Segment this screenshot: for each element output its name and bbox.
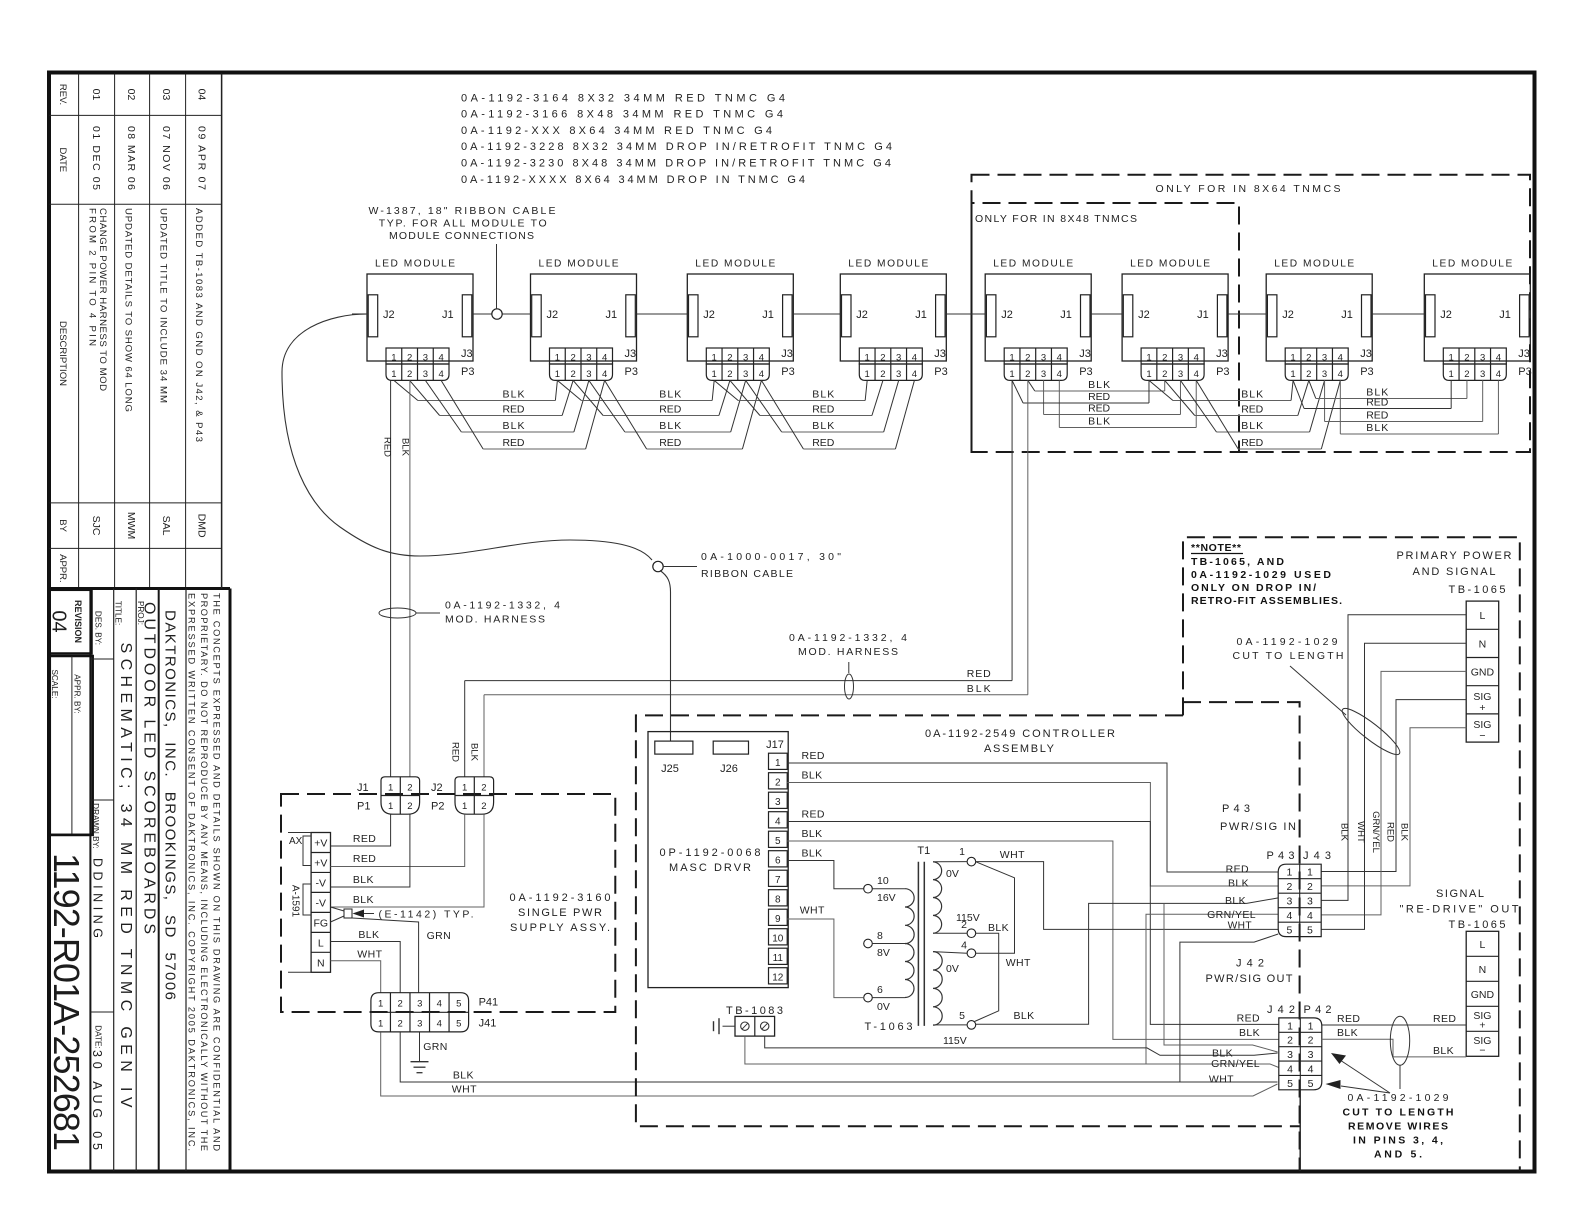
svg-text:WHT: WHT	[452, 1084, 477, 1096]
wire bus span M1-M2	[394, 380, 418, 400]
module M2 connector J1	[626, 295, 636, 337]
svg-text:RED: RED	[1241, 404, 1263, 416]
svg-text:J42: J42	[1236, 958, 1264, 970]
svg-text:P2: P2	[431, 801, 444, 813]
wire bus span M2-M3	[557, 380, 581, 400]
svg-text:SUPPLY ASSY.: SUPPLY ASSY.	[510, 922, 610, 934]
svg-text:LED MODULE: LED MODULE	[848, 259, 928, 270]
svg-text:4: 4	[1194, 353, 1199, 364]
svg-text:3: 3	[417, 999, 422, 1010]
svg-text:+V: +V	[314, 858, 327, 870]
svg-text:3: 3	[1322, 353, 1327, 364]
wire J17.4 RED to J42.1	[787, 821, 1279, 1024]
svg-text:J3: J3	[1216, 348, 1228, 360]
module M4 connector J3/P3 header	[859, 348, 922, 364]
module M1 J2 stub wire	[352, 313, 367, 315]
drawing number 1192-R01A-252681	[49, 834, 91, 837]
svg-text:2: 2	[1464, 369, 1469, 380]
svg-text:P41: P41	[479, 997, 499, 1009]
svg-text:−: −	[1479, 1044, 1485, 1056]
svg-text:0A-1192-1332, 4: 0A-1192-1332, 4	[445, 600, 560, 612]
svg-text:BLK: BLK	[1339, 823, 1350, 842]
svg-text:J42: J42	[1267, 1004, 1295, 1016]
svg-text:DESCRIPTION: DESCRIPTION	[57, 321, 68, 386]
svg-text:P43: P43	[1266, 850, 1294, 862]
svg-text:J1: J1	[1060, 309, 1072, 321]
svg-text:RED: RED	[1226, 864, 1249, 876]
svg-text:1: 1	[555, 369, 560, 380]
wire N to P41.1 WHT	[331, 961, 381, 993]
svg-text:UPDATED DETAILS TO SHOW 64 LON: UPDATED DETAILS TO SHOW 64 LONG	[122, 208, 133, 412]
module M5 power wires RED/BLK drop	[1011, 380, 1013, 680]
connector P41/J41	[371, 993, 469, 1032]
T1 secondary tap 1	[967, 857, 976, 866]
connector J26	[713, 741, 748, 754]
svg-text:BLK: BLK	[988, 922, 1009, 934]
svg-text:J3: J3	[461, 348, 473, 360]
svg-text:BLK: BLK	[659, 420, 681, 432]
svg-text:WHT: WHT	[800, 905, 825, 917]
svg-text:A-1591: A-1591	[290, 885, 301, 918]
transformer T1 primary winding	[905, 889, 914, 944]
svg-text:WHT: WHT	[357, 949, 382, 961]
svg-text:BLK: BLK	[1228, 878, 1249, 890]
svg-text:RED: RED	[503, 437, 525, 449]
cable marker ellipse 0A-1192-1029 upper	[1338, 703, 1405, 760]
LED module M2 box	[531, 274, 637, 361]
ribbon junction circle	[653, 561, 663, 571]
svg-text:BLK: BLK	[1239, 1027, 1260, 1039]
module M8 connector J2	[1426, 295, 1436, 337]
svg-text:WHT: WHT	[1209, 1074, 1234, 1086]
wire J17.5 BLK to J42.2	[787, 841, 1279, 1039]
svg-text:4: 4	[1338, 353, 1343, 364]
svg-text:BLK: BLK	[1366, 422, 1388, 434]
svg-text:2: 2	[727, 369, 732, 380]
svg-text:SCALE:: SCALE:	[50, 669, 59, 698]
svg-text:P42: P42	[1304, 1004, 1332, 1016]
svg-text:0V: 0V	[946, 868, 959, 880]
svg-text:2: 2	[1287, 881, 1293, 893]
svg-text:4: 4	[1057, 369, 1062, 380]
revision table grid	[78, 74, 80, 589]
svg-text:LED MODULE: LED MODULE	[375, 259, 455, 270]
svg-text:TITLE:: TITLE:	[114, 601, 123, 626]
TB-1083 screw terminal 1	[741, 1022, 749, 1030]
svg-text:DAKTRONICS, INC. BROOKINGS,: DAKTRONICS, INC. BROOKINGS, SD 57006	[162, 610, 179, 1000]
svg-text:02: 02	[125, 89, 137, 101]
approved-by / scale cell	[50, 656, 93, 835]
svg-text:3: 3	[1178, 353, 1183, 364]
svg-text:APPR. BY:: APPR. BY:	[73, 674, 82, 714]
W-1387 leader line	[496, 244, 498, 310]
svg-text:BLK: BLK	[812, 389, 834, 401]
svg-text:RED: RED	[1366, 397, 1388, 409]
svg-text:2: 2	[1306, 369, 1311, 380]
svg-text:DES. BY:: DES. BY:	[94, 611, 103, 645]
svg-text:THE CONCEPTS EXPRESSED AND: THE CONCEPTS EXPRESSED AND DETAILS SHOWN…	[212, 593, 222, 1151]
svg-text:BLK: BLK	[1088, 379, 1110, 391]
module M1 connector J1	[462, 295, 472, 337]
svg-text:4: 4	[1496, 353, 1501, 364]
svg-text:MWM: MWM	[125, 512, 137, 539]
wire L to P41.2 BLK	[331, 942, 401, 993]
svg-text:ONLY FOR IN 8X64 TNMCS: ONLY FOR IN 8X64 TNMCS	[1156, 183, 1341, 195]
svg-text:1: 1	[1287, 867, 1293, 879]
svg-text:N: N	[1479, 638, 1487, 650]
svg-text:LED MODULE: LED MODULE	[993, 259, 1073, 270]
svg-text:J1: J1	[1341, 309, 1353, 321]
wire P1.1 to +V RED	[331, 814, 391, 846]
svg-text:BLK: BLK	[353, 894, 374, 906]
svg-text:4: 4	[437, 999, 442, 1010]
module M8 connector J3/P3 header	[1443, 348, 1506, 364]
svg-text:2: 2	[407, 369, 412, 380]
svg-text:4: 4	[912, 369, 917, 380]
svg-text:WHT: WHT	[1355, 821, 1366, 843]
svg-text:03: 03	[160, 89, 172, 101]
svg-text:DATE:: DATE:	[94, 1025, 103, 1049]
svg-text:GRN/YEL: GRN/YEL	[1207, 909, 1256, 921]
terminal strip A-1591	[311, 833, 330, 973]
E-1142 ring terminal symbol	[331, 907, 345, 911]
svg-text:3: 3	[896, 369, 901, 380]
svg-text:2: 2	[1306, 353, 1311, 364]
module M3 connector J2	[689, 295, 699, 337]
harness marker ellipse 0A-1192-1332 (middle)	[845, 674, 854, 699]
svg-text:1: 1	[462, 801, 467, 812]
svg-text:RED: RED	[812, 437, 834, 449]
svg-text:5: 5	[456, 999, 461, 1010]
svg-text:1: 1	[391, 353, 396, 364]
svg-text:04: 04	[48, 610, 70, 632]
svg-text:3: 3	[1287, 896, 1293, 908]
svg-text:1: 1	[1290, 369, 1295, 380]
svg-text:MOD. HARNESS: MOD. HARNESS	[798, 646, 898, 658]
module M1 connector J2	[368, 295, 378, 337]
svg-text:J1: J1	[762, 309, 774, 321]
wire bus span M6-M7	[1149, 380, 1173, 400]
svg-text:WHT: WHT	[1228, 921, 1252, 932]
W-1387 junction node circle	[492, 309, 502, 319]
module M3 connector J3/P3 header	[706, 348, 769, 364]
svg-text:BLK: BLK	[802, 848, 823, 860]
wire bus span M7-M8	[1293, 380, 1304, 408]
T1 primary tap 6 0V	[864, 993, 873, 1002]
module M6 connector J2	[1123, 295, 1133, 337]
svg-text:4: 4	[961, 940, 967, 952]
svg-text:MOD. HARNESS: MOD. HARNESS	[445, 614, 545, 626]
svg-text:1: 1	[391, 369, 396, 380]
svg-text:1: 1	[555, 353, 560, 364]
svg-text:RED: RED	[450, 742, 461, 762]
svg-text:P3: P3	[461, 366, 474, 378]
connector J42/P42	[1279, 1018, 1322, 1090]
svg-text:J2: J2	[1001, 309, 1013, 321]
wire J17.9 WHT to T1 tap6	[787, 919, 864, 998]
wire J17.2 BLK to P43.2	[787, 782, 1278, 886]
svg-text:3: 3	[1041, 353, 1046, 364]
svg-text:TYP. FOR ALL MODULE TO: TYP. FOR ALL MODULE TO	[379, 218, 547, 230]
svg-text:4: 4	[438, 369, 443, 380]
svg-text:2: 2	[398, 999, 403, 1010]
svg-text:4: 4	[1307, 910, 1313, 922]
svg-text:LED MODULE: LED MODULE	[1274, 259, 1354, 270]
svg-text:J2: J2	[856, 309, 868, 321]
wire P1.2 to -V BLK	[331, 814, 410, 887]
svg-text:12: 12	[772, 973, 784, 984]
svg-text:CHANGE POWER HARNESS TO MOD: CHANGE POWER HARNESS TO MOD	[97, 208, 108, 391]
svg-text:BLK: BLK	[802, 770, 823, 782]
svg-text:RED: RED	[812, 404, 834, 416]
module M5 connector J1	[1081, 295, 1091, 337]
svg-text:1: 1	[378, 1018, 383, 1029]
svg-text:RED: RED	[503, 404, 525, 416]
svg-text:P3: P3	[1518, 366, 1531, 378]
cable marker ellipse 0A-1192-1029 lower	[1390, 1016, 1409, 1065]
svg-text:AX: AX	[289, 836, 303, 847]
svg-text:1: 1	[1308, 1020, 1314, 1032]
T1 secondary tap 2	[967, 929, 976, 938]
controller assembly dashed box	[636, 715, 1300, 1126]
svg-text:GRN: GRN	[427, 930, 452, 942]
svg-text:-V: -V	[316, 878, 327, 890]
E-1142 arrow	[353, 910, 365, 918]
svg-text:8: 8	[775, 895, 781, 906]
svg-text:ONLY FOR IN 8X48 TNMCS: ONLY FOR IN 8X48 TNMCS	[975, 213, 1137, 225]
module M7 connector J3/P3 header	[1285, 348, 1348, 364]
svg-text:P3: P3	[1079, 366, 1092, 378]
svg-text:08 MAR 06: 08 MAR 06	[125, 126, 137, 190]
svg-text:−: −	[1479, 730, 1485, 742]
svg-text:EXPRESSED WRITTEN CONSENT OF D: EXPRESSED WRITTEN CONSENT OF DAKTRONICS,…	[187, 593, 197, 1151]
svg-text:1: 1	[1449, 369, 1454, 380]
TB-1083 chassis ground	[723, 1025, 736, 1027]
arrows to pins 3 and 5	[1340, 1060, 1390, 1093]
svg-text:BLK: BLK	[967, 683, 991, 695]
svg-text:BLK: BLK	[469, 743, 480, 762]
svg-text:BLK: BLK	[659, 389, 681, 401]
svg-text:3: 3	[586, 353, 591, 364]
svg-text:5: 5	[959, 1010, 965, 1022]
module M6 connector J3/P3 header	[1141, 348, 1204, 364]
transformer T1 core	[917, 862, 919, 1026]
svg-text:1: 1	[1287, 1020, 1293, 1032]
svg-text:+: +	[1479, 1019, 1485, 1031]
svg-text:BLK: BLK	[1225, 895, 1246, 907]
module M6 connector J1	[1217, 295, 1227, 337]
connector J2/P2	[455, 777, 494, 814]
svg-text:3: 3	[1178, 369, 1183, 380]
svg-text:BLK: BLK	[503, 420, 525, 432]
transformer T1 secondary winding lower	[933, 952, 942, 1026]
A-1591 AX bracket	[303, 836, 311, 866]
controller box right edge below J42	[1299, 1090, 1301, 1171]
svg-text:FG: FG	[314, 918, 329, 930]
LED module M6 box	[1122, 274, 1228, 361]
svg-text:RED: RED	[382, 437, 393, 457]
svg-text:RED: RED	[802, 809, 825, 821]
svg-text:LED MODULE: LED MODULE	[695, 259, 775, 270]
wire T1 tap5 BLK to P43.3	[975, 898, 1278, 1024]
svg-text:4: 4	[912, 353, 917, 364]
svg-text:10: 10	[772, 934, 784, 945]
A-1591 lower bracket	[303, 884, 311, 915]
LED module M5 box	[985, 274, 1091, 361]
T1 secondary tap 5	[967, 1021, 976, 1030]
svg-text:4: 4	[1287, 1063, 1293, 1075]
svg-text:2: 2	[1307, 881, 1313, 893]
svg-text:PWR/SIG IN: PWR/SIG IN	[1220, 821, 1296, 833]
title block outline	[229, 589, 232, 1172]
svg-text:1: 1	[775, 758, 781, 769]
svg-text:3: 3	[896, 353, 901, 364]
svg-text:BLK: BLK	[358, 929, 379, 941]
svg-text:RED: RED	[1088, 403, 1110, 415]
svg-text:P3: P3	[625, 366, 638, 378]
svg-text:4: 4	[602, 353, 607, 364]
svg-text:BLK: BLK	[1014, 1010, 1035, 1022]
svg-text:01: 01	[90, 89, 102, 101]
svg-text:0A-1192-XXXX 8X64 34MM DROP IN: 0A-1192-XXXX 8X64 34MM DROP IN TNMC G4	[461, 174, 805, 186]
svg-text:RED: RED	[1237, 1013, 1260, 1025]
svg-text:BLK: BLK	[1241, 389, 1263, 401]
svg-text:4: 4	[759, 353, 764, 364]
svg-text:J43: J43	[1303, 850, 1331, 862]
svg-text:J26: J26	[720, 763, 738, 775]
svg-text:MASC DRVR: MASC DRVR	[669, 862, 751, 874]
transformer T1 secondary winding upper	[933, 862, 942, 933]
svg-text:5: 5	[1287, 925, 1293, 937]
svg-text:1: 1	[1449, 353, 1454, 364]
svg-text:+: +	[1479, 702, 1485, 714]
svg-text:4: 4	[1057, 353, 1062, 364]
svg-text:2: 2	[727, 353, 732, 364]
svg-text:BLK: BLK	[1433, 1045, 1454, 1057]
wire bus span M3-M4	[714, 380, 738, 400]
svg-text:P3: P3	[1216, 366, 1229, 378]
svg-text:4: 4	[1287, 910, 1293, 922]
svg-text:J3: J3	[1518, 348, 1530, 360]
svg-text:2: 2	[1162, 353, 1167, 364]
svg-text:115V: 115V	[956, 912, 980, 924]
ground symbol below J41	[411, 1061, 429, 1063]
svg-text:1: 1	[1290, 353, 1295, 364]
svg-text:2: 2	[398, 1018, 403, 1029]
wire FG GRN to P41.3	[352, 918, 419, 993]
svg-text:RED: RED	[1088, 391, 1110, 403]
wire J17.6 BLK to T1 tap10	[787, 860, 864, 888]
svg-text:2: 2	[1162, 369, 1167, 380]
svg-text:3: 3	[1480, 369, 1485, 380]
module M5 connector J2	[986, 295, 996, 337]
svg-text:J1: J1	[915, 309, 927, 321]
connector J1/P1	[381, 777, 420, 814]
svg-text:UPDATED TITLE TO INCLUDE 34 MM: UPDATED TITLE TO INCLUDE 34 MM	[157, 208, 168, 403]
svg-text:L: L	[1480, 610, 1486, 622]
svg-text:1: 1	[388, 782, 393, 793]
svg-text:5: 5	[456, 1018, 461, 1029]
svg-text:1: 1	[388, 801, 393, 812]
svg-text:5: 5	[1308, 1078, 1314, 1090]
wire J17.1 RED to P43.1	[787, 763, 1278, 872]
svg-text:5: 5	[775, 836, 781, 847]
svg-text:+V: +V	[314, 838, 327, 850]
module M4 connector J2	[842, 295, 852, 337]
LED module M8 box	[1424, 274, 1530, 361]
svg-text:J2: J2	[1138, 309, 1150, 321]
svg-text:SAL: SAL	[160, 516, 172, 536]
svg-text:2: 2	[775, 778, 781, 789]
svg-text:3: 3	[1308, 1049, 1314, 1061]
svg-text:2: 2	[1308, 1035, 1314, 1047]
svg-text:3: 3	[1041, 369, 1046, 380]
svg-text:0A-1192-XXX 8X64 34MM RED TN: 0A-1192-XXX 8X64 34MM RED TNMC G4	[461, 125, 772, 137]
wire P2.1 to +V RED	[331, 814, 465, 866]
module M2 connector J2	[532, 295, 542, 337]
svg-text:J3: J3	[1079, 348, 1091, 360]
svg-text:2: 2	[407, 353, 412, 364]
svg-text:3: 3	[417, 1018, 422, 1029]
dashed box ONLY FOR IN 8X64 TNMCS	[972, 175, 1531, 452]
LED module M1 box	[367, 274, 473, 361]
wire T1 tap2 BLK jumper to tap5	[975, 933, 999, 1021]
svg-text:BLK: BLK	[400, 438, 411, 457]
svg-text:2: 2	[1025, 369, 1030, 380]
svg-text:4: 4	[1338, 369, 1343, 380]
svg-text:2: 2	[961, 919, 967, 931]
svg-text:3: 3	[775, 797, 781, 808]
svg-text:3: 3	[423, 369, 428, 380]
svg-text:**NOTE**: **NOTE**	[1191, 542, 1242, 554]
svg-text:N: N	[317, 958, 325, 970]
svg-text:GRN/YEL: GRN/YEL	[1211, 1058, 1260, 1070]
svg-text:PWR/SIG OUT: PWR/SIG OUT	[1206, 973, 1293, 985]
svg-text:J17: J17	[766, 739, 784, 751]
svg-text:T1: T1	[917, 845, 930, 857]
svg-text:2: 2	[1464, 353, 1469, 364]
svg-text:BLK: BLK	[812, 420, 834, 432]
svg-text:11: 11	[773, 953, 784, 964]
svg-text:APPR.: APPR.	[57, 554, 68, 583]
leader line to ellipse	[1290, 666, 1346, 715]
svg-text:L: L	[1480, 939, 1486, 951]
svg-text:REMOVE WIRES: REMOVE WIRES	[1348, 1121, 1448, 1133]
svg-text:2: 2	[880, 353, 885, 364]
svg-text:1: 1	[865, 369, 870, 380]
svg-text:8: 8	[877, 930, 883, 942]
svg-text:P3: P3	[1360, 366, 1373, 378]
svg-text:P3: P3	[934, 366, 947, 378]
LED module M4 box	[840, 274, 946, 361]
svg-text:J2: J2	[547, 309, 559, 321]
svg-text:J2: J2	[1282, 309, 1294, 321]
svg-text:J1: J1	[1499, 309, 1511, 321]
svg-text:4: 4	[1496, 369, 1501, 380]
svg-text:REVISION: REVISION	[73, 600, 83, 643]
svg-text:FROM 2 PIN TO 4 PIN: FROM 2 PIN TO 4 PIN	[87, 208, 98, 346]
module M1 power wires RED/BLK to J1/P1	[390, 380, 392, 776]
svg-text:3: 3	[1480, 353, 1485, 364]
svg-text:4: 4	[1308, 1063, 1314, 1075]
module M2 connector J3/P3 header	[550, 348, 613, 364]
svg-text:1: 1	[712, 369, 717, 380]
svg-text:5: 5	[1287, 1078, 1293, 1090]
svg-text:6: 6	[775, 856, 781, 867]
svg-text:16V: 16V	[877, 892, 896, 904]
svg-text:L: L	[318, 938, 324, 950]
svg-text:0A-1000-0017, 30": 0A-1000-0017, 30"	[701, 551, 841, 563]
